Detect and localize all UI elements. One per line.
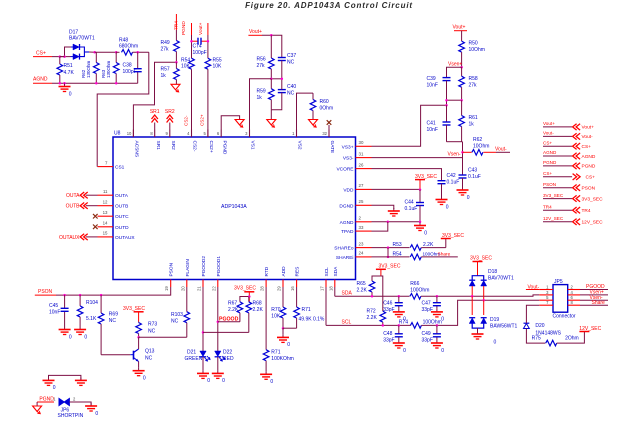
ground C48 0 [398, 340, 400, 343]
svg-text:Vout+: Vout+ [582, 125, 595, 131]
svg-text:2.2K: 2.2K [253, 307, 264, 313]
wire R72 top [381, 276, 383, 311]
wire RTD net [265, 287, 267, 350]
power 3V3_SEC I2C [376, 268, 386, 270]
capacitor C43 plates [459, 174, 467, 176]
chevron 3V3_SEC 7 [573, 195, 577, 201]
svg-text:R68: R68 [253, 301, 262, 307]
wire PGND to JP6 [37, 401, 54, 403]
ground C47 0 [436, 309, 438, 312]
chevron OUTAUX [80, 234, 84, 240]
svg-text:CS+: CS+ [543, 140, 552, 145]
svg-text:FLAGIN: FLAGIN [185, 259, 191, 277]
svg-text:3V3_SEC: 3V3_SEC [379, 264, 401, 270]
svg-text:PGND: PGND [543, 160, 557, 165]
net stub PGOOD JP5 [580, 289, 608, 291]
chevron PSON 6 [573, 185, 577, 191]
resistor R69 NC [100, 295, 102, 313]
resistor R55 10K [207, 57, 209, 58]
svg-text:3V3_SEC: 3V3_SEC [415, 174, 437, 180]
wire R75 to 12V [557, 332, 585, 344]
junction Vsen- node [461, 151, 464, 154]
wire Vsen- column [462, 142, 464, 175]
svg-text:0: 0 [69, 334, 72, 340]
pin 6 PGND stub [220, 130, 222, 138]
svg-text:C44: C44 [405, 200, 414, 206]
pin 5 CS2+ stub [207, 130, 209, 138]
resistor R72 2.2K [382, 310, 384, 312]
junction R70 R71 [282, 327, 285, 330]
svg-text:24: 24 [359, 251, 364, 256]
svg-text:Vout-: Vout- [582, 134, 594, 140]
junction C74 right [207, 40, 210, 43]
svg-text:19: 19 [164, 286, 169, 291]
wire D18 anode R [483, 286, 485, 300]
svg-text:130Ohm: 130Ohm [86, 60, 91, 78]
svg-text:R60: R60 [320, 99, 329, 105]
svg-text:TR4: TR4 [582, 208, 591, 214]
svg-text:0: 0 [222, 378, 225, 384]
pin 3 VS1 stub [249, 130, 251, 138]
capacitor C49 33pF [436, 325, 438, 333]
svg-text:3V3_SEC: 3V3_SEC [470, 256, 492, 262]
chevron TR4 8 [573, 207, 577, 213]
svg-text:RTD: RTD [264, 266, 270, 276]
svg-text:R103: R103 [171, 312, 183, 318]
svg-text:0: 0 [53, 385, 56, 391]
svg-text:VS3-: VS3- [343, 156, 354, 162]
svg-text:SR2: SR2 [165, 109, 175, 115]
junction PSON R69 [100, 294, 103, 297]
svg-text:100Ohm: 100Ohm [410, 288, 429, 294]
capacitor C37 NC plates [278, 57, 286, 59]
svg-text:Vout+: Vout+ [453, 25, 466, 31]
junction share b [387, 256, 390, 259]
svg-text:R67: R67 [228, 301, 237, 307]
junction Q13 collector [137, 336, 140, 339]
svg-text:13: 13 [103, 210, 108, 215]
connector JP5 body [553, 285, 568, 313]
wire SCL net [326, 324, 411, 326]
ground tri PGND [235, 120, 244, 126]
wire R68 to D21 [203, 331, 249, 333]
ground tri R60 [309, 120, 318, 126]
pin JP5 7 [539, 304, 553, 306]
svg-text:SR2: SR2 [170, 141, 176, 151]
svg-text:OUTAUX: OUTAUX [115, 235, 135, 241]
svg-text:D18: D18 [488, 269, 497, 275]
svg-text:Vout-: Vout- [543, 131, 554, 136]
capacitor C74 100pF [192, 40, 199, 42]
svg-text:BAV70WT1: BAV70WT1 [69, 36, 95, 42]
wire Vout+ to C37 [262, 35, 282, 57]
wire Vout+ branch [207, 35, 209, 57]
svg-text:VS2: VS2 [297, 141, 303, 150]
resistor R54 10K [191, 57, 193, 58]
wire CS1 net [97, 52, 149, 166]
pin 13 OUTC stub [98, 215, 114, 217]
no-connect GATE [327, 120, 332, 125]
wire SR2 stub [169, 123, 171, 130]
resistor R51 4.7K body [59, 57, 61, 64]
capacitor C46 plates [395, 302, 403, 304]
svg-text:SR1: SR1 [155, 141, 161, 151]
capacitor C45 10nF [64, 295, 66, 308]
svg-text:0: 0 [143, 376, 146, 382]
svg-text:R61: R61 [469, 115, 478, 121]
svg-text:0: 0 [424, 230, 427, 236]
svg-text:17: 17 [320, 286, 325, 291]
junction D18 SDA [471, 295, 474, 298]
wire PGOOD2 net [202, 287, 204, 351]
resistor R62b 10Ohm leads [463, 151, 472, 153]
pin JP5 5 [539, 299, 553, 301]
svg-text:0: 0 [69, 91, 72, 97]
svg-text:C45: C45 [49, 303, 58, 309]
junction C74 left [190, 40, 193, 43]
wire VS2 net [297, 93, 314, 137]
svg-text:28: 28 [260, 286, 265, 291]
junction pullup split [248, 295, 251, 298]
ground R70 0 [282, 334, 284, 337]
power 3V3_SEC R53 [441, 238, 451, 240]
pin 21 PGOOD2 stub [202, 280, 204, 288]
svg-text:15: 15 [103, 231, 108, 236]
svg-text:PGOOD2: PGOOD2 [201, 256, 207, 277]
wire DGND net [372, 205, 394, 209]
svg-text:22: 22 [211, 286, 216, 291]
junction C46 SDA [398, 295, 401, 298]
svg-text:AGND: AGND [543, 150, 557, 155]
svg-text:SCL: SCL [342, 320, 352, 326]
pin 23 SHAREo stub [356, 247, 372, 249]
resistor R71b 49.9K [296, 306, 298, 308]
svg-text:C37: C37 [287, 53, 296, 59]
svg-text:R66: R66 [410, 281, 419, 287]
junction C40 top [281, 78, 284, 81]
wire D20 to R75 [526, 329, 545, 344]
svg-text:NC: NC [287, 91, 295, 97]
net stub Vsen- JP5 [580, 299, 608, 301]
junction VS1 node [270, 78, 273, 81]
svg-text:0: 0 [403, 348, 406, 354]
pin 32 GATE stub [328, 130, 330, 138]
junction CS+ split [63, 55, 66, 58]
svg-text:OUTD: OUTD [115, 225, 129, 231]
svg-text:C40: C40 [287, 84, 296, 90]
wire R69 to Q13 base [101, 354, 130, 356]
no-connect OUTD [93, 225, 98, 230]
svg-text:PGND: PGND [221, 141, 227, 155]
svg-text:0: 0 [467, 195, 470, 201]
svg-text:R50: R50 [469, 41, 478, 47]
svg-text:ADP1043A: ADP1043A [221, 204, 247, 210]
svg-text:23: 23 [359, 241, 364, 246]
capacitor C74 plates [197, 38, 199, 45]
wire SDA net [335, 295, 410, 297]
svg-text:TR4: TR4 [543, 204, 552, 209]
resistor R66 100Ohm [410, 294, 421, 300]
pin 9 SR2 stub [169, 130, 171, 138]
wire node to R48 [116, 51, 119, 53]
svg-text:2.2K: 2.2K [228, 307, 239, 313]
resistor R53 2.2K [410, 245, 421, 251]
transistor Q13 NC [133, 351, 135, 360]
svg-text:R70: R70 [271, 307, 280, 313]
svg-text:SHAREi: SHAREi [336, 255, 354, 261]
capacitor C39 10nF [446, 81, 448, 106]
svg-text:R65: R65 [357, 281, 366, 287]
ground D22 0 [217, 370, 219, 373]
ground C42 0 [441, 197, 443, 200]
junction mid rail L [445, 99, 448, 102]
chevron SR2 [167, 115, 173, 119]
chevron OUTB [80, 203, 84, 209]
resistor R65 2.2K [371, 280, 373, 282]
pin 16 RES stub [296, 280, 298, 288]
wire D22 cathode [217, 357, 219, 370]
junction C47 SDA [436, 295, 439, 298]
ground bracket R 0 [80, 377, 82, 380]
svg-text:32: 32 [322, 131, 327, 136]
junction Vout+ R56 [270, 34, 273, 37]
svg-text:10nF: 10nF [427, 83, 438, 89]
svg-text:4.7K: 4.7K [64, 70, 75, 76]
svg-text:1k: 1k [469, 122, 475, 128]
op-amp U8 ADP1043A body [113, 137, 356, 280]
svg-text:0: 0 [95, 411, 98, 417]
svg-text:PGND: PGND [582, 164, 596, 170]
svg-text:AGND: AGND [33, 77, 48, 83]
svg-text:10nF: 10nF [49, 310, 60, 316]
wire node to R63 top [95, 51, 117, 53]
svg-text:AGND: AGND [582, 154, 596, 160]
wire C37 bottom tie [271, 78, 282, 80]
wire C41 top lead [446, 105, 448, 122]
svg-text:Vout+: Vout+ [249, 29, 262, 35]
wire CS+ input [52, 56, 71, 58]
resistor R103 NC [184, 312, 190, 323]
chevron CS+ 2 [573, 143, 577, 149]
svg-text:100KOhm: 100KOhm [271, 356, 294, 362]
power 3V3_SEC D18 [473, 261, 483, 263]
junction rail R51 [59, 82, 62, 85]
pin 17 SCL stub [325, 280, 327, 288]
svg-text:21: 21 [197, 286, 202, 291]
svg-text:10K: 10K [181, 64, 191, 70]
junction Vsen+ [460, 66, 463, 69]
chevron AGND 3 [573, 153, 577, 159]
chevron Vout- 1 [573, 133, 577, 139]
svg-text:GATE: GATE [329, 141, 335, 154]
svg-text:SCL: SCL [324, 267, 330, 277]
wire PGND drop [36, 402, 38, 406]
svg-text:PSON: PSON [38, 289, 53, 295]
svg-text:NC: NC [145, 356, 153, 362]
svg-text:R74: R74 [399, 320, 408, 326]
svg-text:2Ohm: 2Ohm [565, 336, 579, 342]
resistor R74 100Ohm [410, 323, 421, 329]
pin 19 PSON stub [170, 280, 172, 288]
svg-text:PGND: PGND [181, 21, 187, 35]
svg-text:26: 26 [359, 162, 364, 167]
junction R49 R57 [175, 61, 178, 64]
capacitor C41 10nF [446, 125, 448, 142]
resistor R54b 100Ohm [410, 254, 421, 260]
wire SCL drop [325, 287, 327, 325]
svg-text:R62: R62 [473, 137, 482, 143]
wire SHAREo net [372, 247, 410, 249]
svg-text:D20: D20 [535, 323, 544, 329]
wire R70 gnd lead [282, 328, 284, 334]
capacitor C47 33pF [436, 296, 438, 302]
svg-text:R56: R56 [257, 57, 266, 63]
svg-text:Q13: Q13 [145, 349, 155, 355]
wire ADD net [282, 287, 284, 307]
svg-text:3V3_SEC: 3V3_SEC [582, 196, 604, 202]
svg-text:C38: C38 [123, 63, 132, 69]
ground DGND [393, 208, 395, 211]
svg-text:CS+: CS+ [582, 144, 592, 150]
svg-text:D21: D21 [187, 350, 196, 356]
resistor R67 2.2K [239, 301, 241, 303]
svg-text:OUTAUX: OUTAUX [59, 235, 80, 241]
svg-text:20: 20 [180, 286, 185, 291]
resistor R49 27k [175, 30, 177, 41]
svg-text:0: 0 [494, 340, 497, 346]
junction D18 SCL [482, 299, 485, 302]
power 3V3_SEC Q13 [134, 311, 144, 313]
svg-text:3V3_SEC: 3V3_SEC [442, 233, 464, 239]
svg-text:Share: Share [438, 251, 451, 257]
wire R103 to Q13 [139, 336, 187, 338]
wire SR1 stub [154, 123, 156, 130]
resistor R62 130Ohm [95, 52, 97, 62]
svg-text:C47: C47 [422, 301, 431, 307]
svg-text:12V_SEC: 12V_SEC [543, 216, 564, 221]
svg-text:R58: R58 [469, 76, 478, 82]
svg-text:JP5: JP5 [554, 279, 563, 285]
wire D19 cathode L [471, 296, 473, 315]
wire VCORE net [372, 169, 442, 181]
svg-text:C48: C48 [383, 331, 392, 337]
junction R65 SDA [371, 295, 374, 298]
resistor R60 0Ohm [312, 93, 314, 99]
ground D19 0 [477, 331, 479, 334]
svg-text:12: 12 [103, 200, 108, 205]
wire VDD net [372, 188, 421, 190]
pin 4 CS2- stub [191, 130, 193, 138]
svg-text:33: 33 [359, 225, 364, 230]
power 3V3_SEC PGOOD [244, 291, 254, 293]
svg-text:2.2K: 2.2K [423, 242, 434, 248]
svg-text:SDA: SDA [333, 266, 339, 277]
svg-text:14: 14 [103, 221, 108, 226]
svg-text:PSON: PSON [543, 182, 556, 187]
diode D20 1N4148WS [524, 324, 530, 329]
wire D19 cathode R [483, 300, 485, 315]
svg-text:PSON: PSON [169, 262, 175, 276]
svg-text:Share: Share [592, 300, 606, 306]
resistor R104 5.1K [79, 295, 81, 306]
wire SDA net 2 [421, 295, 539, 296]
pin JP5 6 [568, 299, 580, 301]
svg-text:11: 11 [103, 189, 108, 194]
wire OUTAUX [86, 236, 98, 238]
chevron PGND 4 [573, 163, 577, 169]
svg-text:BAW56WT1: BAW56WT1 [490, 324, 518, 330]
diode D18 BAV70WT1 [472, 276, 484, 280]
svg-text:R104: R104 [86, 300, 98, 306]
svg-text:Connector: Connector [553, 314, 576, 320]
wire SCL net 2 [421, 300, 539, 325]
power 3V3_SEC VDD [415, 179, 425, 181]
svg-text:27k: 27k [469, 83, 478, 89]
svg-text:D22: D22 [223, 350, 232, 356]
pin JP5 3 [539, 294, 553, 296]
svg-text:OUTB: OUTB [115, 204, 128, 210]
svg-text:R73: R73 [148, 322, 157, 328]
no-connect OUTC [93, 214, 98, 219]
ground C43 0 [462, 187, 464, 190]
svg-text:0.1uF: 0.1uF [405, 206, 418, 212]
svg-text:PGOOD: PGOOD [219, 317, 239, 323]
svg-text:C42: C42 [447, 173, 456, 179]
junction rail R62 [95, 82, 98, 85]
pin 8 SR1 stub [154, 130, 156, 138]
wire 3V3 to VDD [419, 180, 421, 190]
svg-text:0: 0 [207, 378, 210, 384]
net stub Share JP5 [580, 304, 608, 306]
junction VS3+ tap [445, 104, 448, 107]
svg-text:R54: R54 [393, 251, 402, 257]
wire AGND net [372, 221, 421, 223]
wire TPAD net [372, 222, 388, 231]
wire FLAGIN to R103 [186, 287, 188, 312]
svg-text:ACSNS: ACSNS [134, 141, 140, 158]
resistor R58 27k [461, 67, 463, 76]
resistor R73 NC [138, 321, 140, 322]
junction C48 SCL [398, 324, 401, 327]
svg-text:R75: R75 [532, 336, 541, 342]
svg-text:25: 25 [359, 199, 364, 204]
svg-text:BAV70WT1: BAV70WT1 [488, 276, 514, 282]
junction node CS1f b [115, 51, 118, 54]
pin JP5 4 [568, 294, 580, 296]
svg-text:CS2-: CS2- [192, 141, 198, 152]
svg-text:CS2+: CS2+ [208, 141, 214, 153]
junction node CS1f a [93, 51, 96, 54]
resistor R70 10K [282, 306, 284, 308]
chevron SR1 [152, 115, 158, 119]
wire GATE stub ext [328, 125, 330, 130]
wire R67 to D22 [218, 321, 240, 323]
svg-text:29: 29 [277, 286, 282, 291]
wire PSON net [56, 287, 171, 295]
resistor R61 1k [461, 100, 463, 115]
pin 31 VS3- stub [356, 157, 372, 159]
svg-text:OUTC: OUTC [115, 214, 129, 220]
svg-text:C41: C41 [427, 121, 436, 127]
wire 3V3 pullups [248, 292, 250, 302]
svg-text:R53: R53 [393, 242, 402, 248]
wire C44 lead [419, 190, 421, 203]
svg-text:18: 18 [328, 286, 333, 291]
wire SHAREi net [372, 256, 410, 258]
capacitor C40 NC plates [278, 89, 286, 91]
capacitor C38 plates [134, 68, 142, 70]
svg-text:0: 0 [441, 348, 444, 354]
